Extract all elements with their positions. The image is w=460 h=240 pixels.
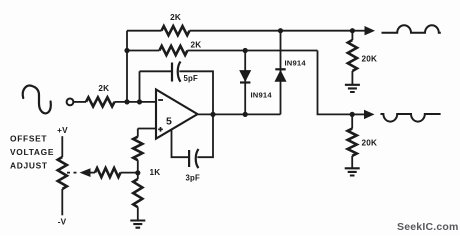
label 2K R1: [98, 84, 109, 93]
wire top feedback left: [127, 30, 162, 32]
label 1K R6: [150, 168, 161, 177]
label IN914 D1: [251, 91, 273, 100]
svg-text:2K: 2K: [191, 41, 202, 50]
wire second feedback right: [187, 50, 317, 52]
resistor R1 2K (input): [86, 97, 115, 106]
node junction input-feedback B: [137, 99, 142, 104]
label IN914 D2: [285, 59, 307, 68]
label +V: [57, 126, 68, 135]
svg-text:-V: -V: [58, 218, 67, 227]
label 2K R2: [170, 13, 181, 22]
wire non-inverting input: [138, 128, 156, 130]
wire 3pF right: [197, 114, 213, 157]
waveform symbol positive humps: [382, 25, 441, 33]
resistor R4 20K (top): [348, 31, 357, 85]
wire op-amp output: [198, 113, 281, 115]
svg-text:1K: 1K: [150, 168, 161, 177]
wire 5pF feedback right: [179, 71, 213, 114]
resistor R3 2K (second feedback): [159, 46, 187, 55]
label 3pF C2: [186, 174, 200, 183]
label OFFSET VOLTAGE ADJUST: [10, 134, 54, 171]
op-amp U1: [156, 90, 198, 139]
svg-text:2K: 2K: [170, 13, 181, 22]
wire riser to top feedback: [126, 31, 128, 102]
node second wire diode D1: [243, 48, 248, 53]
wire second feedback left: [127, 50, 159, 52]
label -V: [58, 218, 67, 227]
wire corner to lower output: [318, 51, 353, 115]
potentiometer R8: [58, 136, 91, 215]
input terminal: [67, 99, 74, 106]
wire R1 to op-amp inverting input: [115, 101, 156, 103]
label op-amp 5: [166, 116, 172, 128]
arrow top output: [352, 26, 375, 35]
node op-amp output: [210, 112, 215, 117]
svg-text:IN914: IN914: [251, 91, 273, 100]
wire plus input corner down: [137, 129, 139, 137]
ground bottom right: [345, 168, 360, 175]
diode D1 1N914: [240, 51, 250, 115]
svg-text:ADJUST: ADJUST: [10, 160, 48, 170]
capacitor C1 5pF: [172, 62, 181, 82]
node top wire diode D2: [278, 28, 283, 33]
resistor R5 20K (bottom): [348, 114, 357, 167]
resistor R9 (wiper series): [91, 168, 138, 177]
svg-text:2K: 2K: [98, 84, 109, 93]
wire input to R1: [74, 101, 86, 103]
wire R6 to node: [137, 160, 139, 179]
svg-text:5: 5: [166, 116, 172, 128]
wire top feedback right: [190, 30, 353, 32]
node diode D1 bottom: [243, 112, 248, 117]
wire riser to 5pF feedback: [139, 71, 141, 102]
node wiper junction: [135, 170, 140, 175]
ground center: [130, 221, 145, 228]
waveform symbol negative humps: [381, 114, 441, 122]
label 20K R5: [362, 139, 378, 148]
resistor R7 (lower to ground): [133, 179, 142, 207]
svg-text:OFFSET: OFFSET: [10, 134, 47, 144]
svg-text:3pF: 3pF: [186, 174, 200, 183]
resistor R6 1K: [133, 137, 142, 161]
svg-text:5pF: 5pF: [184, 74, 198, 83]
wire 3pF left: [172, 129, 190, 157]
svg-text:VOLTAGE: VOLTAGE: [10, 147, 54, 157]
wire R7 to ground: [137, 207, 139, 220]
node top wire 20K: [350, 28, 355, 33]
arrow lower output: [352, 110, 374, 119]
node junction input-feedback A: [124, 99, 129, 104]
diode D2 1N914: [275, 31, 285, 115]
svg-text:SeekIC.com: SeekIC.com: [397, 221, 459, 233]
svg-text:20K: 20K: [362, 139, 378, 148]
svg-text:20K: 20K: [362, 55, 378, 64]
resistor R2 2K (top feedback): [162, 26, 190, 35]
ground top right: [345, 85, 360, 92]
label 5pF C1: [184, 74, 198, 83]
capacitor C2 3pF: [189, 149, 198, 168]
node riser second feedback: [124, 48, 129, 53]
label 2K R3: [191, 41, 202, 50]
label 20K R4: [362, 55, 378, 64]
svg-text:IN914: IN914: [285, 59, 307, 68]
signal source sine symbol: [23, 86, 51, 114]
wire 5pF feedback left: [140, 70, 173, 72]
watermark SeekIC.com: [397, 221, 459, 233]
node lower output 20K: [350, 112, 355, 117]
svg-text:+V: +V: [57, 126, 68, 135]
